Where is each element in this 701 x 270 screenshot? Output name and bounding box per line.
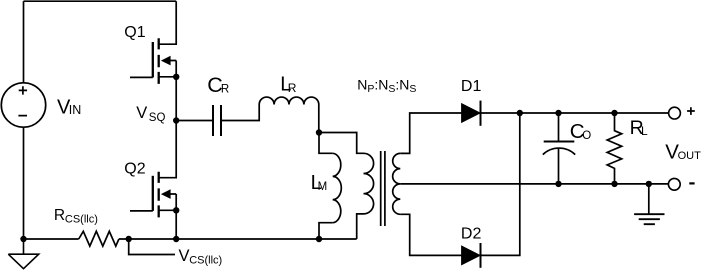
junction Q1 source [173, 74, 179, 80]
ground left [8, 239, 38, 269]
svg-text:R: R [288, 81, 297, 95]
junction LM bottom [316, 236, 322, 242]
junction Q2 source [173, 207, 179, 213]
terminal plus [669, 107, 681, 119]
wire bottom rail right [119, 238, 357, 240]
svg-text:NP:NS:NS: NP:NS:NS [357, 77, 416, 96]
wire LR to node A [318, 105, 320, 133]
label VCS(llc) [179, 247, 223, 266]
svg-text:IN: IN [69, 103, 82, 117]
wire bottom rail left [24, 238, 79, 240]
diode D1 [462, 101, 481, 126]
resistor RL [607, 113, 622, 184]
wire left rail lower [23, 127, 25, 239]
wire D2 cathode up to output node [481, 113, 520, 255]
ground right [634, 184, 664, 224]
junction CO bottom [555, 181, 561, 187]
label VIN [57, 97, 81, 119]
diode D2 [462, 243, 481, 268]
junction RL top [611, 110, 617, 116]
junction Q2 source to bottom rail [173, 236, 179, 242]
inductor LM [319, 133, 341, 240]
svg-text:L: L [641, 124, 648, 138]
wire CR to LR [221, 105, 259, 121]
junction CO top [555, 110, 561, 116]
wire VCS(llc) tap [129, 239, 175, 255]
svg-text:V: V [179, 247, 190, 265]
label RL [630, 117, 648, 139]
transformer T1 secondary windings [393, 153, 401, 214]
transistor Q2 [130, 121, 176, 240]
svg-text:OUT: OUT [678, 150, 701, 162]
svg-text:O: O [582, 130, 591, 142]
label CO [570, 120, 592, 143]
wire secondary top to D1 anode [400, 113, 461, 153]
svg-text:CS(llc): CS(llc) [189, 254, 222, 266]
junction ground-left rail [20, 236, 26, 242]
label LM [311, 172, 328, 194]
junction ground-right [646, 181, 652, 187]
wire top rail [24, 0, 177, 2]
svg-text:Q2: Q2 [124, 161, 145, 178]
wire D1 cathode to plus terminal [481, 112, 669, 114]
svg-text:Q1: Q1 [124, 24, 145, 41]
svg-text:D1: D1 [461, 78, 482, 95]
svg-text:D2: D2 [461, 225, 482, 242]
source VIN [1, 83, 45, 127]
wire left rail upper [23, 1, 25, 83]
label VSQ [136, 104, 165, 124]
transistor Q1 [130, 1, 176, 120]
junction rectifier output [517, 110, 523, 116]
resistor RCS(llc) [79, 231, 119, 246]
label LR [280, 74, 297, 96]
node A resonant tank [316, 129, 322, 135]
svg-text:M: M [318, 181, 328, 193]
label VOUT [665, 141, 701, 164]
node VSQ [173, 117, 179, 123]
junction RL bottom [611, 181, 617, 187]
capacitor CO [543, 113, 575, 184]
label CR [207, 73, 229, 97]
wire secondary bottom to D2 anode [400, 214, 461, 255]
wire primary bottom [357, 214, 364, 239]
transformer T1 core [381, 151, 385, 226]
svg-text:R: R [54, 207, 65, 224]
wire node A to primary top [319, 133, 364, 154]
svg-text:SQ: SQ [149, 112, 166, 124]
svg-text:R: R [221, 83, 229, 95]
wire center tap to minus terminal [400, 183, 668, 185]
inductor LR [259, 97, 319, 104]
transformer T1 primary winding [364, 153, 374, 214]
svg-text:V: V [136, 104, 147, 122]
wire VSQ node to CR [176, 120, 213, 122]
node VCS(llc) [126, 236, 132, 242]
capacitor CR [213, 105, 221, 136]
terminal minus [668, 178, 680, 190]
label RCS(llc) [54, 207, 98, 226]
svg-text:CS(llc): CS(llc) [65, 214, 98, 226]
